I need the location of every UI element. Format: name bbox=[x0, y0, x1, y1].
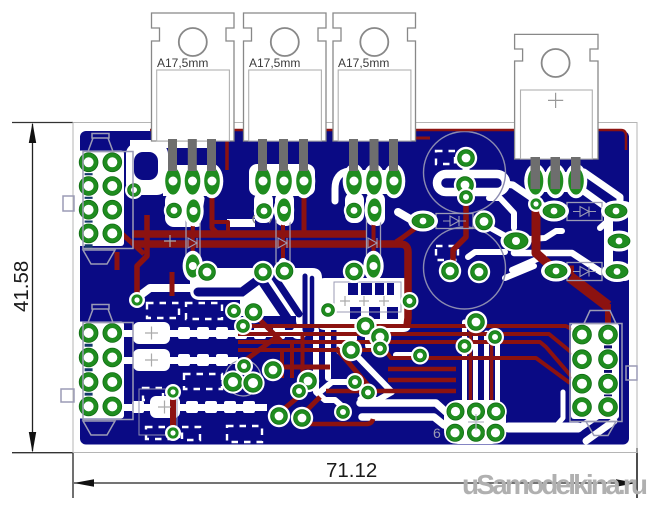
connector X1 pads bbox=[78, 152, 123, 245]
wire bundle vertical 2 bbox=[473, 322, 478, 404]
wire red bottom horizontal bbox=[303, 419, 373, 424]
wire red left stub bbox=[115, 252, 120, 270]
cross mid-left bbox=[164, 235, 176, 247]
board outer outline bbox=[73, 123, 637, 453]
wire bundle vertical 4 bbox=[495, 337, 500, 404]
transistor VT4 legs bbox=[531, 157, 581, 189]
pour VT1 top band bbox=[130, 140, 214, 148]
wire D6 pad down elbow bbox=[600, 219, 610, 228]
wire slash 2 bbox=[586, 421, 614, 441]
wire bottom left elbow 2 bbox=[362, 417, 444, 425]
vertical dimension line 41.58 bbox=[32, 124, 34, 451]
wire T2 elbow bbox=[489, 198, 514, 228]
via under VT4 bbox=[528, 196, 544, 212]
connector X1 backing bbox=[78, 151, 125, 247]
wire red top short bbox=[405, 137, 430, 140]
wire red left elbow bbox=[137, 215, 147, 296]
wire pad368 stub bbox=[360, 392, 368, 399]
wire red diag e bbox=[336, 348, 372, 390]
arrow right bbox=[616, 479, 637, 486]
transistor VT1 package bbox=[152, 13, 235, 141]
wire vertical pair 2 bbox=[325, 330, 331, 378]
IC white region bbox=[317, 278, 411, 354]
wire red left diag bbox=[120, 232, 144, 254]
wire red diag b bbox=[302, 397, 320, 415]
wire right column channel bbox=[604, 201, 634, 281]
dimension extension vertical right bbox=[636, 448, 638, 498]
transistor VT4 package bbox=[515, 34, 598, 159]
bundle top pads bbox=[456, 311, 505, 355]
IC blue pin boxes bbox=[348, 283, 398, 319]
wire bottom band right bbox=[508, 423, 578, 433]
wire vertical pair 1 bbox=[316, 330, 343, 407]
wire red bus1 bbox=[132, 230, 366, 238]
wire red D1 vertical bbox=[191, 215, 195, 258]
wire red vertical v2 bbox=[290, 343, 294, 378]
transistor VT3 pads bbox=[343, 164, 406, 199]
wire diag low a bbox=[512, 256, 544, 270]
diode bottom pads bbox=[183, 251, 384, 282]
wire red bundle L1 bbox=[238, 326, 576, 332]
wire red VT2 pin3 down bbox=[302, 192, 307, 234]
wire pad355 elbow bbox=[320, 382, 355, 392]
wire IC down left 2 bbox=[337, 322, 342, 352]
wire IC down left bbox=[347, 322, 352, 352]
wire mid-left horizontal bbox=[142, 288, 202, 294]
wire right conn vertical bbox=[556, 392, 563, 426]
cap C2 pads bbox=[439, 260, 490, 283]
misc pads center bbox=[196, 260, 429, 429]
svg-text:A17,5mm: A17,5mm bbox=[157, 56, 208, 70]
wire cap1 pad stub bbox=[463, 160, 470, 176]
wire red diag c bbox=[247, 336, 278, 359]
vias under VT2 bbox=[254, 195, 294, 226]
wire VT3 to D5 bbox=[398, 212, 417, 223]
wire red mid stub bbox=[170, 272, 175, 296]
wire red bundle L3 bbox=[238, 342, 583, 403]
wire bottom left elbow 1 bbox=[360, 403, 446, 412]
wire X2 neck r3 bbox=[104, 389, 120, 399]
wire bundle vertical 3 bbox=[484, 333, 489, 404]
capacitor circle C2 bbox=[424, 227, 506, 309]
wire slash 1 bbox=[578, 410, 606, 429]
wire red bundle L2 bbox=[238, 334, 577, 357]
transistor VT1 legs bbox=[168, 139, 216, 171]
cross header center bbox=[468, 414, 484, 430]
dashed outlines bbox=[143, 151, 458, 442]
wire VT2 band left bbox=[227, 219, 255, 227]
cross chainC bbox=[158, 401, 171, 414]
resistor chain row B bbox=[122, 349, 238, 371]
pour VT4 pad area bbox=[527, 172, 585, 192]
wire y238 horizontal bbox=[530, 231, 562, 239]
wire red bundle vertical 2 bbox=[490, 330, 494, 402]
cross chainA bbox=[145, 327, 158, 340]
vias under VT3 bbox=[344, 195, 385, 226]
transistor VT1 pads bbox=[162, 164, 224, 199]
wire X2 neck r1 bbox=[104, 340, 120, 350]
diode D6 outline bbox=[567, 203, 602, 221]
wire red between VT1 VT2 bbox=[225, 133, 229, 170]
central white field bbox=[190, 268, 322, 328]
header 2x3 block bbox=[444, 400, 507, 444]
wire cap1 ring bbox=[437, 174, 506, 192]
wire red D3 vertical bbox=[372, 213, 376, 256]
pour VT3 lobe1 bbox=[345, 192, 364, 223]
arrow up bbox=[29, 123, 36, 144]
wire bundle vertical 1 bbox=[462, 322, 467, 404]
wire red vertical v3 bbox=[301, 335, 305, 378]
resistor chain row A bbox=[122, 322, 306, 344]
wire red bottom-left vertical bbox=[170, 392, 176, 433]
blue core right column bbox=[613, 210, 628, 269]
connector X2 dark bars bbox=[85, 341, 93, 399]
transistor VT2 package bbox=[244, 13, 327, 141]
wire VT3 scurve bbox=[335, 171, 349, 201]
svg-text:41.58: 41.58 bbox=[10, 261, 33, 312]
wire red D2 vertical bbox=[281, 215, 285, 258]
blue traces in central field bbox=[198, 275, 312, 330]
blue wedge VT1 pour bbox=[200, 196, 214, 227]
wire red ladder bar 3 bbox=[326, 389, 456, 394]
wire red diag d bbox=[256, 316, 281, 341]
vias under VT1 bbox=[164, 196, 204, 227]
wire diag low b bbox=[505, 266, 534, 278]
pour VT2 pad area bbox=[249, 164, 315, 196]
connector X2 housing bbox=[61, 305, 133, 436]
connector X3 housing bbox=[570, 311, 637, 436]
wire red D7 diag bbox=[570, 277, 608, 306]
wire red to X3 pad bbox=[605, 304, 611, 331]
capacitor circle C1 bbox=[424, 132, 506, 214]
diode D5 outline bbox=[436, 214, 473, 229]
wire red horizontal mid bbox=[277, 365, 330, 370]
connector X1 dark bars bbox=[85, 170, 93, 250]
pour VT2 lobe1 bbox=[254, 192, 273, 223]
cross chainB bbox=[145, 354, 158, 367]
right area pads bbox=[408, 201, 634, 283]
transistor VT3 package bbox=[333, 13, 416, 141]
wire stub D1 bbox=[189, 262, 197, 272]
wire stub D2 bbox=[279, 262, 287, 271]
arrow down bbox=[29, 432, 36, 453]
pour VT1 pad area bbox=[163, 165, 214, 196]
transistor VT3 legs bbox=[349, 139, 398, 171]
pour VT1 lower lobe bbox=[165, 192, 205, 227]
horizontal dimension line 71.12 bbox=[74, 482, 636, 484]
connector X3 pads bbox=[571, 324, 619, 418]
wire y252 short bbox=[468, 252, 505, 257]
wire red VT4 big vertical bbox=[536, 182, 554, 269]
wire red top edge bbox=[150, 130, 626, 150]
wire red bus2 bbox=[132, 244, 408, 326]
resistor chain row C bbox=[122, 396, 267, 418]
wire red cap pads down bbox=[453, 199, 466, 264]
wire red VT1 pin3 down bbox=[212, 192, 218, 234]
pour VT3 lobe2 bbox=[366, 192, 385, 226]
svg-text:71.12: 71.12 bbox=[326, 459, 377, 482]
dimension extension vertical left bbox=[72, 453, 74, 498]
wire red X3 stubs bbox=[572, 327, 579, 405]
wire y253 horizontal bbox=[514, 253, 601, 272]
svg-text:6: 6 bbox=[433, 425, 441, 441]
dimension extension line bottom-left bbox=[12, 452, 73, 454]
wire VT4 diag lower bbox=[578, 187, 603, 205]
diode D7 outline bbox=[567, 263, 602, 281]
cross marks row bbox=[340, 296, 389, 306]
connector X2 pads bbox=[78, 322, 123, 417]
wire red diag a bbox=[279, 393, 303, 413]
wire diag fork bbox=[354, 353, 392, 400]
pour VT3 pad area bbox=[345, 170, 405, 194]
misc vias left bbox=[125, 181, 181, 441]
transistor VT4 pads bbox=[524, 164, 587, 199]
svg-text:uSamodelkina.ru: uSamodelkina.ru bbox=[462, 469, 648, 500]
wire ring to D6 bbox=[505, 184, 548, 209]
wire stub D3 bbox=[370, 262, 378, 271]
wire D5pad to bigpad bbox=[489, 227, 507, 237]
connector X3 backing bbox=[571, 324, 619, 420]
dimension extension line top-left bbox=[12, 122, 73, 124]
wire red bundle vertical 1 bbox=[469, 322, 473, 402]
wire red D5 diag bbox=[396, 224, 421, 242]
svg-text:A17,5mm: A17,5mm bbox=[338, 56, 389, 70]
IC outline bbox=[334, 282, 401, 312]
wire red through D7 bbox=[553, 266, 574, 275]
arrow left bbox=[74, 479, 94, 486]
courtyard C-bottom-left bbox=[139, 389, 177, 435]
board copper area bbox=[80, 131, 629, 445]
connector X1 housing bbox=[63, 134, 133, 265]
diode D1 outline bbox=[186, 219, 200, 263]
pour VT2 lobe2 bbox=[275, 192, 294, 226]
svg-text:A17,5mm: A17,5mm bbox=[249, 56, 300, 70]
wire red ladder bar 2 bbox=[388, 378, 456, 383]
wire red jog bbox=[213, 222, 228, 233]
wire red bundle L4 bbox=[238, 350, 570, 383]
cap C1 pads bbox=[454, 147, 477, 206]
circle C3 small bbox=[225, 360, 261, 396]
transistor VT2 pads bbox=[252, 164, 316, 199]
blue core in VT1 lobe bbox=[134, 152, 158, 180]
wire fork horizontal bbox=[396, 352, 420, 358]
wire VT4 diag upper bbox=[584, 172, 620, 205]
wire red ladder bar 1 bbox=[388, 367, 456, 372]
wire via355 stub bbox=[400, 352, 416, 360]
diode D3 outline bbox=[367, 219, 381, 263]
transistor VT2 legs bbox=[258, 139, 308, 171]
pour VT1 left lobe bbox=[126, 143, 168, 195]
wire red vertical v1 bbox=[280, 351, 284, 378]
connector X2 backing bbox=[78, 322, 125, 419]
diode D2 outline bbox=[276, 219, 290, 263]
connector X3 dark bars bbox=[604, 343, 612, 401]
wire X2 neck r2 bbox=[104, 365, 120, 375]
VT2 dash arcs bbox=[253, 215, 271, 223]
